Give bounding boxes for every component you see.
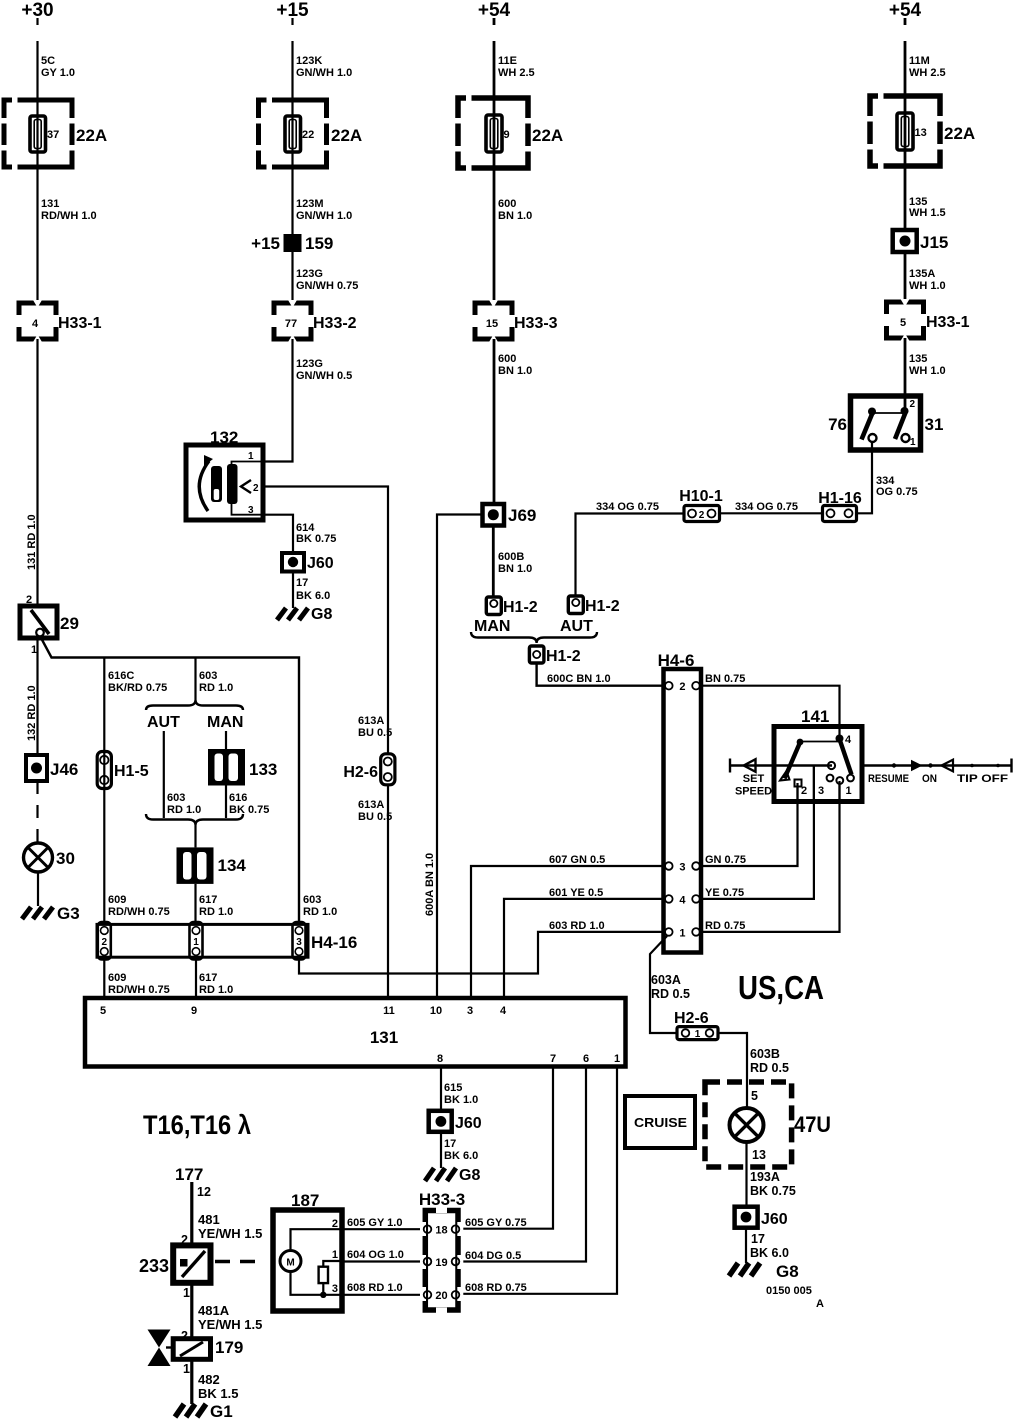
wire 482 BK to ground G1	[190, 1359, 193, 1404]
svg-text:12: 12	[197, 1185, 211, 1199]
svg-text:G3: G3	[57, 904, 80, 923]
svg-text:141: 141	[801, 707, 829, 726]
svg-text:BK 6.0: BK 6.0	[750, 1246, 789, 1260]
svg-text:BU 0.5: BU 0.5	[358, 727, 392, 739]
svg-text:T16,T16 λ: T16,T16 λ	[143, 1110, 251, 1140]
svg-text:1: 1	[910, 437, 916, 448]
svg-text:123G: 123G	[296, 268, 323, 280]
svg-text:600: 600	[498, 353, 516, 365]
svg-text:17: 17	[444, 1138, 456, 1150]
svg-text:4: 4	[845, 734, 852, 746]
svg-text:609: 609	[108, 894, 126, 906]
wire 132 RD from 29 to J46	[36, 638, 38, 755]
wire 17 BK to ground G8 (right)	[745, 1228, 747, 1263]
svg-text:RD 0.75: RD 0.75	[705, 920, 745, 932]
svg-text:603B: 603B	[750, 1047, 780, 1061]
svg-text:605 GY 1.0: 605 GY 1.0	[347, 1217, 402, 1229]
svg-text:H33-2: H33-2	[313, 315, 357, 332]
connector H33-1 pin 4	[19, 303, 56, 339]
connector 179	[173, 1339, 210, 1360]
wire 481A YE/WH	[190, 1283, 193, 1339]
svg-text:9: 9	[504, 129, 510, 141]
svg-text:RD 0.5: RD 0.5	[750, 1061, 789, 1075]
svg-text:BN 1.0: BN 1.0	[498, 563, 532, 575]
svg-text:YE 0.75: YE 0.75	[705, 887, 744, 899]
svg-text:2: 2	[801, 785, 807, 797]
brace joining AUT/MAN into 134	[146, 814, 243, 825]
svg-text:481A: 481A	[198, 1303, 230, 1318]
svg-text:77: 77	[285, 318, 297, 330]
splice J46	[26, 755, 47, 781]
svg-text:1: 1	[248, 451, 254, 462]
svg-text:WH 1.0: WH 1.0	[909, 280, 946, 292]
svg-text:334 OG 0.75: 334 OG 0.75	[596, 501, 659, 513]
wire 123K from +15 to fuse	[291, 18, 293, 118]
svg-text:+15: +15	[276, 0, 309, 21]
svg-text:H1-5: H1-5	[114, 763, 149, 780]
splice J69	[483, 504, 505, 526]
svg-text:193A: 193A	[750, 1170, 780, 1184]
wire 600A BN from J69 to 131 pin 10	[437, 515, 483, 999]
svg-text:RD 1.0: RD 1.0	[303, 906, 337, 918]
wire brace to diode 134	[194, 825, 196, 847]
svg-text:M: M	[286, 1258, 294, 1269]
svg-text:22: 22	[302, 129, 314, 141]
svg-text:H1-2: H1-2	[503, 599, 538, 616]
svg-text:RD 1.0: RD 1.0	[167, 804, 201, 816]
wire 334 OG from switch to H1-16	[857, 442, 873, 513]
control module 131	[85, 998, 626, 1067]
svg-text:17: 17	[751, 1232, 765, 1246]
svg-text:1: 1	[31, 644, 37, 656]
splice J60 (under 131)	[429, 1111, 452, 1132]
svg-text:WH 1.0: WH 1.0	[909, 365, 946, 377]
svg-text:G8: G8	[776, 1262, 799, 1281]
svg-text:GN 0.75: GN 0.75	[705, 854, 746, 866]
svg-text:22A: 22A	[331, 126, 362, 145]
wire 193A BK from 47U pin 13	[745, 1142, 747, 1207]
svg-text:J69: J69	[508, 506, 536, 525]
svg-text:482: 482	[198, 1372, 220, 1387]
svg-text:1: 1	[695, 1029, 701, 1040]
wire 11E from +54 to fuse	[493, 18, 496, 118]
wire 601 YE from 131 pin 4 to H4-6 pin 4	[504, 899, 664, 998]
svg-text:600A BN 1.0: 600A BN 1.0	[424, 853, 436, 916]
svg-text:BK 0.75: BK 0.75	[229, 804, 269, 816]
svg-text:0150 005: 0150 005	[766, 1285, 812, 1297]
svg-text:GY 1.0: GY 1.0	[41, 67, 75, 79]
svg-text:2: 2	[102, 937, 108, 948]
svg-text:123M: 123M	[296, 198, 324, 210]
svg-text:605 GY 0.75: 605 GY 0.75	[465, 1217, 527, 1229]
node 159 (+15 distribution)	[284, 234, 302, 252]
wire 604 DG from 131 pin 6 to H33-3	[458, 1067, 586, 1262]
svg-text:BN 1.0: BN 1.0	[498, 365, 532, 377]
connector H33-1 pin 5 (column 4)	[887, 302, 924, 338]
wire 603A RD from H4-6 pin 1 to H2-6	[650, 936, 677, 1033]
svg-text:YE/WH 1.5: YE/WH 1.5	[198, 1317, 262, 1332]
svg-text:603: 603	[167, 792, 185, 804]
svg-text:22A: 22A	[944, 124, 975, 143]
svg-text:47U: 47U	[794, 1112, 831, 1137]
wire 135A WH to H33-1	[904, 252, 907, 302]
svg-text:613A: 613A	[358, 799, 384, 811]
wire 334 OG between H10-1 and H1-16	[720, 512, 823, 514]
switch 31/76 (brake pedal switches)	[851, 396, 921, 450]
svg-text:H2-6: H2-6	[674, 1010, 709, 1027]
svg-text:22A: 22A	[532, 126, 563, 145]
svg-text:617: 617	[199, 972, 217, 984]
wire lamp to ground	[37, 872, 39, 906]
svg-text:609: 609	[108, 972, 126, 984]
svg-text:131: 131	[370, 1028, 398, 1047]
connector H1-2 (AUT)	[568, 596, 583, 614]
svg-text:BK 0.75: BK 0.75	[296, 533, 336, 545]
svg-text:604 DG 0.5: 604 DG 0.5	[465, 1250, 521, 1262]
svg-text:RD 1.0: RD 1.0	[199, 906, 233, 918]
svg-text:20: 20	[435, 1290, 447, 1302]
svg-text:615: 615	[444, 1082, 462, 1094]
svg-text:1: 1	[193, 937, 199, 948]
svg-text:179: 179	[215, 1338, 243, 1357]
indicator label CRUISE	[625, 1096, 695, 1148]
brace splitting 603 into AUT/MAN	[146, 700, 243, 710]
svg-text:481: 481	[198, 1212, 220, 1227]
svg-text:1: 1	[332, 1249, 338, 1261]
ground G8 (under 132)	[277, 608, 308, 620]
fuse 31 (22A) column 1	[36, 118, 38, 200]
svg-text:76: 76	[828, 415, 847, 434]
wire 600C BN to H4-6 pin 2	[537, 663, 664, 686]
svg-text:BK 1.0: BK 1.0	[444, 1094, 478, 1106]
svg-text:+54: +54	[889, 0, 922, 21]
svg-text:4: 4	[32, 318, 39, 330]
svg-text:GN/WH 0.75: GN/WH 0.75	[296, 280, 358, 292]
svg-text:MAN: MAN	[207, 714, 243, 731]
svg-text:ON: ON	[922, 773, 937, 785]
wire 135 WH from H33-1 to switch 31	[904, 338, 907, 411]
svg-text:15: 15	[486, 318, 498, 330]
wire 615 BK from 131 pin 8 to J60	[440, 1067, 442, 1111]
connector strip H4-16	[97, 924, 308, 957]
svg-text:WH 1.5: WH 1.5	[909, 207, 946, 219]
svg-text:177: 177	[175, 1165, 203, 1184]
svg-text:11M: 11M	[909, 55, 930, 67]
connector H33-2 pin 77	[274, 303, 311, 339]
svg-text:GN/WH 1.0: GN/WH 1.0	[296, 210, 352, 222]
svg-text:WH 2.5: WH 2.5	[909, 67, 946, 79]
svg-text:BK 1.5: BK 1.5	[198, 1386, 238, 1401]
svg-text:159: 159	[305, 234, 333, 253]
svg-text:2: 2	[332, 1218, 338, 1230]
wire 607 GN from 131 pin 3 to H4-6 pin 3	[471, 866, 664, 998]
wire RD 0.75 from 141 pin 1 to H4-6 pin 1	[701, 781, 840, 932]
svg-text:J60: J60	[455, 1115, 482, 1132]
svg-text:9: 9	[191, 1005, 197, 1017]
svg-text:G8: G8	[311, 606, 332, 623]
svg-text:604 OG 1.0: 604 OG 1.0	[347, 1249, 404, 1261]
svg-text:1: 1	[679, 927, 685, 939]
svg-text:13: 13	[752, 1148, 766, 1162]
svg-text:J60: J60	[761, 1211, 788, 1228]
svg-text:13: 13	[915, 127, 927, 139]
svg-text:11E: 11E	[498, 55, 517, 67]
svg-text:BU 0.5: BU 0.5	[358, 811, 392, 823]
wire 17 BK to ground G8	[292, 572, 294, 609]
svg-text:8: 8	[437, 1053, 443, 1065]
svg-text:613A: 613A	[358, 715, 384, 727]
splice J60 (under 132)	[282, 553, 304, 572]
ground G1	[175, 1404, 206, 1417]
wire 132 pin 2 to H2-6 and 131 pin 11	[263, 487, 388, 755]
svg-text:1: 1	[183, 1362, 190, 1376]
svg-text:SET: SET	[743, 773, 765, 785]
svg-text:607 GN 0.5: 607 GN 0.5	[549, 854, 605, 866]
svg-text:5: 5	[751, 1089, 758, 1103]
splice J60 (under 47U)	[735, 1207, 758, 1228]
svg-text:MAN: MAN	[474, 618, 510, 635]
svg-text:H33-1: H33-1	[58, 315, 102, 332]
svg-text:H1-2: H1-2	[546, 648, 581, 665]
dashed wire J46 to lamp 30	[36, 781, 38, 843]
svg-text:617: 617	[199, 894, 217, 906]
svg-text:603: 603	[199, 670, 217, 682]
wire 135 WH below fuse4	[904, 198, 907, 230]
diode 133 (MAN branch)	[225, 731, 227, 749]
wire YE 0.75 from 141 pin 3 to H4-6 pin 4	[701, 766, 814, 899]
svg-text:3: 3	[467, 1005, 473, 1017]
wire 616 BK below 133	[225, 786, 227, 819]
svg-text:18: 18	[435, 1225, 447, 1237]
svg-text:YE/WH 1.5: YE/WH 1.5	[198, 1226, 262, 1241]
svg-text:3: 3	[332, 1283, 338, 1295]
wire BN 0.75 from H4-6 pin 2 to switch 141 pin 4	[701, 686, 840, 737]
svg-text:31: 31	[925, 415, 944, 434]
ground G8 (centre)	[425, 1168, 456, 1181]
fuse 22 (22A) column 2	[291, 118, 293, 200]
svg-text:OG 0.75: OG 0.75	[876, 486, 918, 498]
svg-text:H10-1: H10-1	[679, 488, 723, 505]
svg-text:H33-1: H33-1	[926, 314, 970, 331]
svg-text:132 RD 1.0: 132 RD 1.0	[26, 685, 38, 741]
connector H1-2 (MAN)	[486, 597, 501, 615]
wire 600 BN below fuse3	[493, 200, 496, 303]
splice J15	[893, 230, 917, 252]
wire 123G 0.5 from H33-2 down to ignition switch 132 pin 1	[263, 339, 293, 462]
svg-text:600C BN 1.0: 600C BN 1.0	[547, 673, 611, 685]
svg-text:1: 1	[614, 1053, 620, 1065]
wire 123M below fuse2	[291, 200, 293, 234]
svg-text:10: 10	[430, 1005, 442, 1017]
svg-text:135A: 135A	[909, 268, 935, 280]
svg-text:J15: J15	[920, 233, 948, 252]
fuse 13 (22A) column 4	[904, 116, 907, 198]
svg-text:G1: G1	[210, 1402, 233, 1420]
svg-text:BN 0.75: BN 0.75	[705, 673, 745, 685]
svg-text:RESUME: RESUME	[868, 773, 909, 785]
svg-text:123G: 123G	[296, 358, 323, 370]
wire 603 RD from H4-16 pin 3 to H4-6 pin 1	[299, 932, 664, 974]
svg-text:RD/WH 0.75: RD/WH 0.75	[108, 906, 170, 918]
ground G8 (right)	[729, 1263, 760, 1276]
mechanical stop symbol (hourglass)	[148, 1330, 171, 1348]
svg-text:GN/WH 0.5: GN/WH 0.5	[296, 370, 352, 382]
svg-text:5: 5	[100, 1005, 106, 1017]
svg-text:6: 6	[583, 1053, 589, 1065]
wire 17 BK to ground G8 (centre)	[440, 1132, 442, 1168]
wire 123G below node 159	[291, 252, 293, 303]
wire 132 pin 3 to J60 ground	[263, 515, 293, 553]
svg-text:+30: +30	[21, 0, 53, 21]
svg-text:603 RD 1.0: 603 RD 1.0	[549, 920, 605, 932]
switch 141 function scale (SET SPEED / RESUME / ON / TIP OFF)	[862, 759, 1012, 773]
wire 5C from +30 to fuse	[36, 18, 38, 118]
svg-text:616C: 616C	[108, 670, 134, 682]
svg-text:BN 1.0: BN 1.0	[498, 210, 532, 222]
wire 603 RD (AUT branch)	[163, 731, 165, 818]
wire 603 RD from junction down to brace	[194, 658, 196, 701]
svg-text:BK/RD 0.75: BK/RD 0.75	[108, 682, 167, 694]
connector H1-5	[97, 752, 111, 789]
svg-text:3: 3	[679, 862, 685, 874]
svg-text:131: 131	[41, 198, 59, 210]
svg-text:RD 1.0: RD 1.0	[199, 682, 233, 694]
wire 605 GY from 131 pin 7 to H33-3	[458, 1067, 553, 1229]
svg-text:2: 2	[699, 510, 705, 521]
wire 131 RD from H33-1 to switch 29	[36, 339, 38, 607]
wire 131 RD/WH below fuse1	[36, 200, 38, 303]
fuse 9 (22A) column 3	[493, 118, 496, 200]
svg-text:J46: J46	[50, 760, 78, 779]
mechanical link dashes from 233	[215, 1260, 259, 1263]
connector H1-2 (combined)	[529, 646, 544, 663]
svg-text:AUT: AUT	[560, 618, 593, 635]
svg-text:17: 17	[296, 577, 308, 589]
wire 600 BN from H33-3 to J69	[493, 339, 496, 504]
svg-text:2: 2	[910, 399, 916, 410]
svg-text:601 YE 0.5: 601 YE 0.5	[549, 887, 603, 899]
svg-text:BK 6.0: BK 6.0	[444, 1150, 478, 1162]
wire GN 0.75 from 141 pin 2 to H4-6 pin 3	[701, 783, 798, 866]
svg-text:1: 1	[183, 1286, 190, 1300]
svg-text:+15: +15	[251, 234, 280, 253]
connector H2-6 (on wire 613A)	[381, 754, 395, 785]
svg-text:1: 1	[846, 785, 852, 797]
svg-text:4: 4	[679, 894, 686, 906]
svg-text:5: 5	[900, 317, 906, 329]
svg-text:RD 1.0: RD 1.0	[199, 984, 233, 996]
wires H4-16 to 131 pins 5 and 9	[104, 960, 196, 999]
svg-text:RD/WH 1.0: RD/WH 1.0	[41, 210, 97, 222]
svg-text:600: 600	[498, 198, 516, 210]
svg-text:2: 2	[253, 483, 259, 494]
svg-text:TIP OFF: TIP OFF	[957, 773, 1008, 785]
svg-text:22A: 22A	[76, 126, 107, 145]
svg-text:H33-3: H33-3	[419, 1190, 465, 1209]
svg-text:A: A	[816, 1298, 824, 1310]
svg-text:AUT: AUT	[147, 714, 180, 731]
wire 603B RD to lamp 47U	[718, 1033, 747, 1108]
svg-text:600B: 600B	[498, 551, 524, 563]
svg-text:H33-3: H33-3	[514, 315, 558, 332]
svg-text:603: 603	[303, 894, 321, 906]
wire from switch 29 pin 1 to H4-16 pin 3	[40, 636, 299, 924]
wire 616C BK/RD down through H1-5	[103, 658, 105, 925]
svg-text:19: 19	[435, 1257, 447, 1269]
svg-text:+54: +54	[478, 0, 511, 21]
svg-text:4: 4	[500, 1005, 507, 1017]
svg-text:3: 3	[248, 505, 254, 516]
svg-text:G8: G8	[459, 1167, 480, 1184]
wire 600B BN to H1-2 MAN	[492, 526, 495, 598]
svg-text:7: 7	[550, 1053, 556, 1065]
svg-text:123K: 123K	[296, 55, 322, 67]
svg-text:334 OG 0.75: 334 OG 0.75	[735, 501, 798, 513]
svg-text:RD 0.5: RD 0.5	[651, 987, 690, 1001]
wire 608 RD from 131 pin 1 to H33-3	[458, 1067, 617, 1294]
svg-text:GN/WH 1.0: GN/WH 1.0	[296, 67, 352, 79]
svg-text:J60: J60	[307, 555, 334, 572]
wire 11M from +54 to fuse	[904, 18, 907, 116]
lamp 30	[24, 843, 53, 872]
svg-text:616: 616	[229, 792, 247, 804]
svg-text:RD/WH 0.75: RD/WH 0.75	[108, 984, 170, 996]
svg-text:H4-16: H4-16	[311, 933, 357, 952]
svg-text:H1-2: H1-2	[585, 598, 620, 615]
svg-text:135: 135	[909, 353, 927, 365]
svg-text:11: 11	[383, 1005, 395, 1017]
svg-text:5C: 5C	[41, 55, 55, 67]
svg-text:CRUISE: CRUISE	[634, 1115, 687, 1130]
svg-text:H2-6: H2-6	[343, 764, 378, 781]
svg-text:BK 6.0: BK 6.0	[296, 590, 330, 602]
svg-text:30: 30	[56, 849, 75, 868]
wire 334 from AUT H1-2 up to H10-1	[576, 514, 685, 597]
svg-text:37: 37	[47, 129, 59, 141]
svg-text:608 RD 1.0: 608 RD 1.0	[347, 1282, 403, 1294]
svg-text:603A: 603A	[651, 973, 681, 987]
svg-text:608 RD 0.75: 608 RD 0.75	[465, 1282, 527, 1294]
ground G3	[22, 907, 53, 919]
svg-text:WH 2.5: WH 2.5	[498, 67, 535, 79]
svg-text:2: 2	[679, 681, 685, 693]
diode 134	[177, 847, 214, 884]
instrument cluster box 47U (dashed) with CRUISE lamp	[705, 1082, 792, 1167]
connector H33-3 pin 15	[475, 303, 512, 339]
svg-text:US,CA: US,CA	[738, 969, 824, 1006]
wire 617 RD below 134	[194, 884, 196, 925]
svg-text:BK 0.75: BK 0.75	[750, 1184, 796, 1198]
svg-text:131 RD 1.0: 131 RD 1.0	[26, 514, 38, 570]
svg-text:SPEED: SPEED	[735, 786, 772, 798]
svg-text:29: 29	[60, 614, 79, 633]
svg-text:134: 134	[218, 856, 247, 875]
svg-text:233: 233	[139, 1256, 169, 1276]
svg-text:133: 133	[249, 760, 277, 779]
svg-text:3: 3	[296, 937, 302, 948]
svg-text:187: 187	[291, 1191, 319, 1210]
brace joining MAN/AUT to H1-2	[471, 632, 597, 643]
svg-text:3: 3	[818, 785, 824, 797]
